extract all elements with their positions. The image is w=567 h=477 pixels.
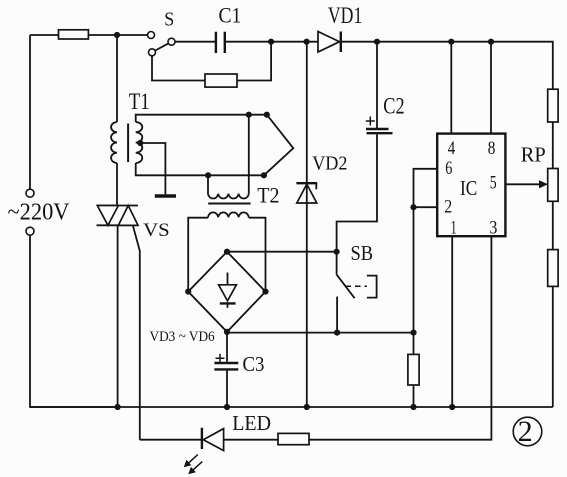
wire C1 branch left <box>175 41 215 43</box>
svg-text:S: S <box>164 9 174 31</box>
wire right column b <box>552 201 554 249</box>
node SB bottom <box>334 330 340 336</box>
node C2 junction <box>374 39 380 45</box>
svg-text:1: 1 <box>451 217 457 238</box>
node secondary top a <box>246 112 252 118</box>
T1 core <box>127 124 129 163</box>
pushbutton SB <box>334 249 377 333</box>
svg-text:VD2: VD2 <box>312 153 347 174</box>
svg-text:VD1: VD1 <box>328 3 362 28</box>
svg-text:~220V: ~220V <box>8 199 71 225</box>
node C3 bottom <box>224 404 230 410</box>
potentiometer RP <box>548 169 558 202</box>
node pin8 junction <box>488 39 494 45</box>
svg-text:T2: T2 <box>257 183 279 208</box>
wire vertical to T2 top winding <box>248 115 250 194</box>
wire right column a <box>552 122 554 169</box>
capacitor C3 <box>214 333 238 407</box>
wire chevron <box>264 115 293 176</box>
resistor R3 on pin6 line <box>408 354 419 385</box>
T2 bottom winding <box>208 212 249 217</box>
wire top-left horizontal <box>30 34 147 36</box>
node T1 secondary centre tap <box>137 140 143 146</box>
svg-text:4: 4 <box>448 138 456 159</box>
resistor R2 in series with S lower branch <box>205 74 237 87</box>
wire T2 bottom left to bridge <box>188 217 208 291</box>
node bridge left <box>185 289 191 295</box>
arrowhead pin5 <box>539 180 548 188</box>
wire bottom main <box>30 406 553 408</box>
bridge rectifier VD3-VD6 <box>188 252 265 332</box>
wire pin 3 to LED branch <box>309 237 491 440</box>
svg-text:VS: VS <box>143 220 170 241</box>
node bridge right <box>262 289 268 295</box>
LED <box>202 428 224 451</box>
transformer T1 <box>111 122 142 163</box>
resistor R4 right top <box>548 89 558 122</box>
IC U1 <box>437 134 505 237</box>
wire LED left <box>140 439 202 441</box>
wire lower branch to top <box>237 42 271 81</box>
svg-text:C1: C1 <box>219 3 242 28</box>
wire left vertical upper <box>29 35 31 189</box>
svg-text:3: 3 <box>489 217 497 238</box>
svg-text:VD3 ~ VD6: VD3 ~ VD6 <box>150 329 216 345</box>
diode VD2 (zener) <box>296 183 317 203</box>
svg-text:5: 5 <box>490 173 497 194</box>
wire C1 branch right <box>225 41 318 43</box>
svg-text:T1: T1 <box>129 89 150 115</box>
wire C2 to SB <box>337 134 377 252</box>
T2 core <box>208 203 250 205</box>
svg-text:6: 6 <box>445 158 452 179</box>
resistor R5 right bottom <box>548 250 558 287</box>
node secondary top b <box>264 112 270 118</box>
wire T1 secondary top <box>136 115 267 122</box>
T1 primary winding <box>111 122 117 163</box>
wire T1 primary feed <box>116 35 118 122</box>
terminal upper ~220V <box>26 189 34 197</box>
resistor R6 LED series <box>278 433 309 444</box>
wire centre tap to ground <box>139 143 165 194</box>
wire pin 2 <box>414 206 437 208</box>
wire T2 bottom right to bridge <box>249 217 266 291</box>
triac VS <box>97 206 139 226</box>
LED emission arrow 1 <box>184 455 198 468</box>
ground <box>155 194 176 198</box>
T2 top winding <box>208 175 249 198</box>
node bridge bottom <box>224 329 230 335</box>
svg-text:2: 2 <box>518 415 533 448</box>
node pin 2 junction <box>410 204 416 210</box>
node triac bottom <box>115 404 121 410</box>
wire top right after VD1 <box>341 42 553 89</box>
wire pin 6 <box>414 169 437 354</box>
svg-text:RP: RP <box>521 143 546 167</box>
svg-text:IC: IC <box>460 176 477 200</box>
wire bridge top to SB <box>227 251 337 253</box>
svg-text:2: 2 <box>444 196 452 217</box>
node pin4 junction <box>448 39 454 45</box>
wire R3 to bottom <box>413 385 415 407</box>
resistor R1 top-left <box>59 30 89 39</box>
LED emission arrow 2 <box>188 462 202 475</box>
wire S lower branch <box>152 56 205 80</box>
node secondary bottom a <box>205 172 211 178</box>
diode VD1 <box>318 32 341 53</box>
wire right column c <box>552 286 554 407</box>
node bridge-output junction <box>410 330 416 336</box>
node C1/R2 junction <box>268 39 274 45</box>
wire pin 5 to RP <box>506 183 542 185</box>
terminal lower ~220V <box>26 227 34 235</box>
bridge inner diode <box>227 273 229 285</box>
node secondary bottom b <box>261 172 267 178</box>
node R3 bottom <box>410 404 416 410</box>
node junction top of T1 <box>114 32 120 38</box>
wire T1 secondary bottom <box>136 163 264 175</box>
node pin1 bottom <box>449 404 455 410</box>
node bridge top <box>224 249 230 255</box>
svg-text:C2: C2 <box>383 94 404 119</box>
switch S <box>148 32 176 56</box>
wire pin 8 <box>490 42 492 134</box>
wire triac to bottom <box>117 225 119 407</box>
T1 secondary winding <box>136 122 143 163</box>
wire left vertical lower <box>30 235 118 407</box>
figure number 2 badge <box>513 417 542 446</box>
capacitor C2 <box>366 42 393 134</box>
wire pin 4 <box>450 42 452 134</box>
transformer T2 <box>208 175 251 217</box>
wire VD2 vertical <box>306 42 308 407</box>
wire triac gate <box>133 225 140 439</box>
node VD2 bottom <box>304 404 310 410</box>
svg-text:8: 8 <box>488 138 496 159</box>
wire pin 1 <box>451 237 453 408</box>
wire bridge bottom to R node <box>227 331 414 334</box>
wire LED right <box>224 439 278 441</box>
svg-text:SB: SB <box>351 241 374 265</box>
wire T1 primary to triac <box>116 163 118 206</box>
svg-text:LED: LED <box>232 411 271 435</box>
svg-text:C3: C3 <box>243 352 265 376</box>
capacitor C1 <box>216 32 225 53</box>
node VD2 branch junction <box>304 39 310 45</box>
